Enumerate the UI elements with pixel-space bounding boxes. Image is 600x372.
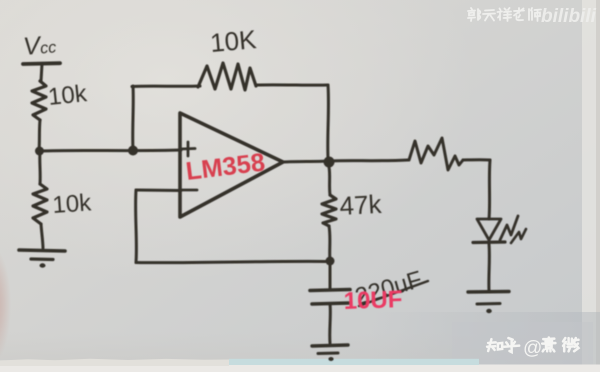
wire feedback down to output node xyxy=(326,85,330,158)
label R3 10K xyxy=(209,24,258,58)
progress bar played segment xyxy=(0,359,229,366)
op-amp U1 LM358 triangle xyxy=(180,113,283,217)
svg-text:@: @ xyxy=(523,338,542,359)
capacitor C1 bottom plate xyxy=(312,303,349,304)
char xiang xyxy=(498,8,512,21)
char lao xyxy=(514,8,524,20)
LED D1 triangle xyxy=(477,219,501,240)
char xi xyxy=(542,338,555,352)
char hu xyxy=(504,338,519,352)
watermark guotianxiang laoshi (CJK strokes) xyxy=(468,8,541,21)
wire node D to capacitor C1 xyxy=(329,261,332,289)
watermark backdrop box xyxy=(452,322,593,365)
wire node C down to R5 xyxy=(329,167,330,195)
char guo xyxy=(468,8,480,21)
ground GND3 xyxy=(312,345,348,346)
LED D1 cathode bar xyxy=(473,240,505,244)
capacitor C1 top plate xyxy=(310,290,350,291)
wire Vcc to R1 xyxy=(41,64,42,81)
progress bar buffered segment xyxy=(229,359,479,365)
char tian xyxy=(483,10,495,21)
wire C1 to ground xyxy=(328,304,332,343)
watermark bilibili logo xyxy=(541,6,597,27)
char wei xyxy=(563,338,578,351)
node C junction dot xyxy=(324,157,335,168)
label C1 10UF corrected xyxy=(343,286,403,315)
node A junction dot xyxy=(35,147,44,156)
label U1 LM358 xyxy=(184,148,266,185)
wire node D feedback to inverting input: horizontal run xyxy=(136,261,330,262)
wire opamp output to node C xyxy=(283,161,329,162)
ground GND1 xyxy=(19,250,65,251)
bottom-right corner shadow xyxy=(370,312,600,365)
wire feedback top right segment xyxy=(256,83,328,86)
wire node A to opamp + input xyxy=(39,150,181,151)
char zhi xyxy=(487,339,502,351)
pin + (non-inverting) xyxy=(181,147,195,150)
svg-text:47k: 47k xyxy=(339,189,383,221)
svg-text:10k: 10k xyxy=(47,80,89,111)
node D junction dot xyxy=(326,257,335,266)
ground GND2 xyxy=(468,290,509,294)
wire node A down to R2 xyxy=(38,151,41,184)
resistor R2 10k xyxy=(33,184,47,224)
resistor R4 series LED xyxy=(409,138,463,170)
resistor R1 10k xyxy=(32,81,46,120)
resistor R5 47k xyxy=(322,195,336,226)
wire feedback vertical at x=136 xyxy=(134,190,138,263)
wire LED cathode to ground xyxy=(487,244,491,291)
node B junction dot xyxy=(128,146,138,156)
pin - (inverting) xyxy=(182,189,197,192)
wire feedback top left segment xyxy=(132,85,200,89)
LED emission arrows xyxy=(500,216,518,240)
label C1 220uF crossed out xyxy=(352,266,425,311)
svg-text:bilibili: bilibili xyxy=(541,6,597,27)
label R1 10k xyxy=(47,80,89,111)
svg-text:10K: 10K xyxy=(209,24,258,58)
Vcc label xyxy=(22,30,57,61)
wire node C to R4 xyxy=(329,160,408,161)
wire R1 to node A xyxy=(39,120,40,151)
char shi xyxy=(529,8,541,21)
@ glyph xyxy=(523,338,542,359)
wire node B up to feedback xyxy=(131,86,135,150)
label R2 10k xyxy=(52,189,93,219)
strip below progress bar xyxy=(0,365,600,372)
wire R5 to node D xyxy=(329,226,330,261)
resistor R3 10K feedback xyxy=(198,63,256,90)
watermark zhihu @xiwei (CJK strokes) xyxy=(487,338,578,359)
Vcc symbol bars xyxy=(23,61,60,66)
wire to inverting input xyxy=(136,189,181,193)
label R5 47k xyxy=(339,189,383,221)
svg-text:10UF: 10UF xyxy=(343,286,403,315)
wire down to LED anode xyxy=(489,160,490,219)
wire R2 to ground xyxy=(41,224,43,248)
svg-text:10k: 10k xyxy=(52,189,93,219)
wire R4 to LED branch corner xyxy=(463,158,490,161)
